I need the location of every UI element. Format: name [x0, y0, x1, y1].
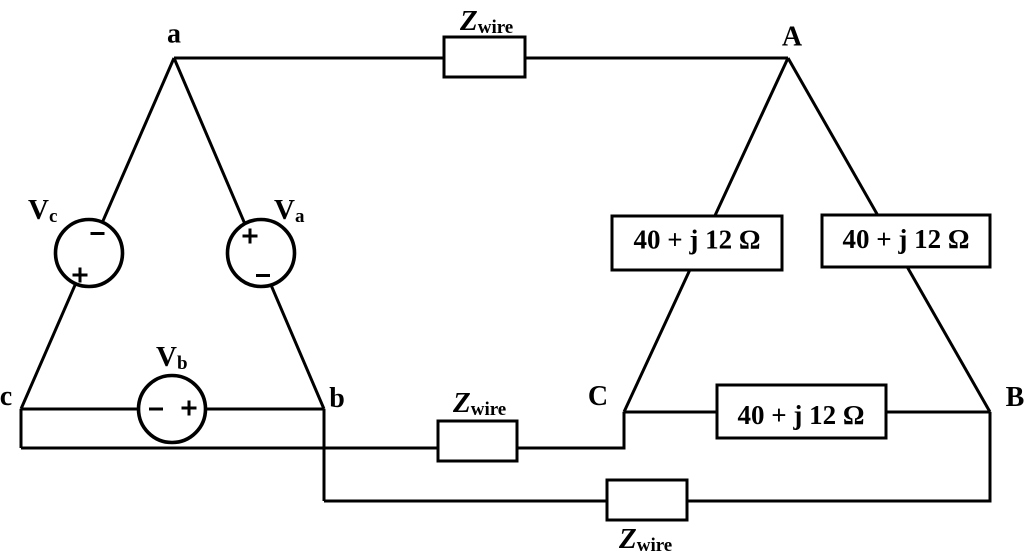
wire b drop: [323, 409, 326, 501]
svg-text:40 + j 12 Ω: 40 + j 12 Ω: [634, 225, 761, 255]
svg-text:C: C: [588, 381, 608, 412]
svg-text:B: B: [1006, 382, 1024, 413]
svg-text:40 + j 12 Ω: 40 + j 12 Ω: [738, 400, 865, 430]
load resistor 40 + j 12 ohm (C-B branch): [717, 385, 886, 438]
svg-text:c: c: [0, 381, 12, 412]
impedance Zwire bottom box: [607, 480, 687, 556]
svg-text:A: A: [782, 22, 803, 53]
source Vc circle: [28, 194, 123, 287]
source Vb circle: [139, 341, 206, 443]
wire A to B diagonal: [788, 58, 990, 412]
load resistor 40 + j 12 ohm (A-B branch): [822, 215, 990, 267]
svg-text:b: b: [329, 383, 345, 414]
wire c to b horizontal: [21, 408, 324, 411]
load resistor 40 + j 12 ohm (A-C branch): [612, 216, 782, 270]
wire a to b diagonal: [174, 58, 324, 409]
wire A to C diagonal: [624, 58, 788, 412]
wire a to c diagonal: [21, 58, 174, 409]
source Va circle: [228, 194, 305, 287]
svg-text:a: a: [167, 19, 181, 50]
wire bottom horizontal b to B: [324, 412, 990, 501]
wire bottom-left horizontal to C riser: [21, 412, 624, 448]
impedance Zwire top box: [444, 5, 525, 77]
wire a to A (top line): [174, 57, 788, 60]
impedance Zwire middle box: [438, 387, 517, 461]
svg-text:40 + j 12 Ω: 40 + j 12 Ω: [843, 224, 970, 254]
wire c drop: [20, 409, 23, 448]
wire C to B horizontal: [624, 411, 990, 414]
